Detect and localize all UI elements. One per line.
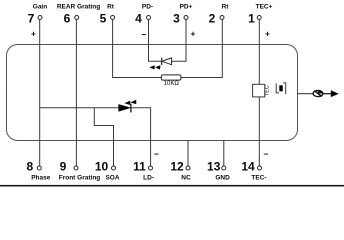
svg-text:9: 9 xyxy=(60,160,67,174)
wire pin7 to pin8 vertical xyxy=(39,20,41,167)
svg-text:Rt: Rt xyxy=(222,3,230,10)
wire laser cathode to pin11 LD- xyxy=(131,108,151,166)
svg-text:Rt: Rt xyxy=(107,3,115,10)
output beam arrow xyxy=(323,90,339,97)
svg-text:−: − xyxy=(142,30,147,40)
wire photodiode anode to pin3 PD+ xyxy=(172,20,186,62)
svg-text:1: 1 xyxy=(248,11,255,25)
pin 13 (GND) xyxy=(207,160,230,182)
svg-text:TEC: TEC xyxy=(264,85,270,96)
svg-text:NC: NC xyxy=(181,175,191,182)
svg-text:PD+: PD+ xyxy=(180,3,193,10)
svg-text:8: 8 xyxy=(26,160,33,174)
svg-text:GND: GND xyxy=(215,175,230,182)
svg-text:REAR Grating: REAR Grating xyxy=(57,3,100,10)
svg-text:13: 13 xyxy=(207,160,221,174)
svg-text:Phase: Phase xyxy=(31,175,51,182)
wire pin1 TEC+ to TEC xyxy=(258,20,260,85)
svg-text:10: 10 xyxy=(95,160,109,174)
svg-text:TEC+: TEC+ xyxy=(256,3,273,10)
wire pin4 PD- to photodiode cathode xyxy=(149,20,162,62)
svg-text:14: 14 xyxy=(241,160,255,174)
svg-text:4: 4 xyxy=(135,11,142,25)
TEC module xyxy=(253,84,271,97)
svg-text:3: 3 xyxy=(173,11,180,25)
pin 11 (LD-) xyxy=(133,149,159,182)
svg-text:−: − xyxy=(154,149,159,159)
svg-text:−: − xyxy=(264,149,269,159)
svg-text:10KΩ: 10KΩ xyxy=(164,81,180,87)
pin 5 (Rt) xyxy=(100,3,115,25)
pin 12 (NC) xyxy=(170,160,191,182)
svg-text:+: + xyxy=(191,29,196,39)
optical isolator lens xyxy=(313,90,323,96)
svg-text:6: 6 xyxy=(64,11,71,25)
pin 4 (PD-) xyxy=(135,3,153,39)
svg-text:SOA: SOA xyxy=(105,175,119,182)
wire pin10 SOA staircase xyxy=(94,108,113,166)
svg-text:TEC-: TEC- xyxy=(251,175,266,182)
svg-text:11: 11 xyxy=(133,160,146,174)
svg-text:Gain: Gain xyxy=(33,3,47,10)
pin 10 (SOA) xyxy=(95,160,120,182)
pin 8 (Phase) xyxy=(26,160,50,182)
pin 2 (Rt) xyxy=(209,3,230,25)
svg-text:7: 7 xyxy=(28,11,35,25)
wire pin6 to pin9 vertical xyxy=(75,20,77,167)
pin 3 (PD+) xyxy=(173,3,195,38)
package outline (butterfly module case) xyxy=(7,45,298,141)
svg-text:+: + xyxy=(265,29,270,39)
svg-text:5: 5 xyxy=(100,11,107,25)
thermistor Rt 10KΩ xyxy=(161,75,181,87)
pin 7 (Gain) xyxy=(28,3,48,38)
pin 6 (REAR Grating) xyxy=(57,3,100,25)
laser diode LD xyxy=(119,100,137,113)
wire TEC to pin14 TEC- xyxy=(258,97,260,167)
wire pin5 Rt to thermistor xyxy=(113,20,162,78)
svg-text:12: 12 xyxy=(170,160,184,174)
pin 1 (TEC+) xyxy=(248,3,272,38)
svg-text:LD-: LD- xyxy=(143,175,154,182)
photodiode PD (monitor) xyxy=(149,58,171,70)
svg-text:2: 2 xyxy=(209,11,216,25)
wire pin13 GND to case xyxy=(223,141,225,167)
pin 9 (Front Grating) xyxy=(59,160,101,182)
wire laser anode rail xyxy=(40,107,119,109)
svg-text:PD-: PD- xyxy=(142,3,153,10)
pin 14 (TEC-) xyxy=(241,149,268,182)
wire pin12 NC to case xyxy=(187,141,189,167)
laser chip on submount xyxy=(276,83,286,94)
wire optical output xyxy=(298,93,314,95)
svg-text:+: + xyxy=(31,29,36,39)
wire thermistor to pin2 Rt xyxy=(181,20,222,78)
svg-text:Front Grating: Front Grating xyxy=(59,175,101,182)
